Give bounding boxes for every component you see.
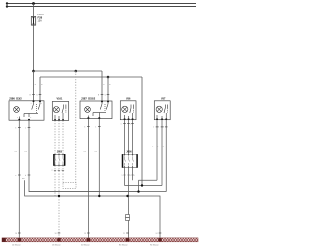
svg-text:ws: ws [22,178,24,180]
svg-text:94 Masse: 94 Masse [150,244,160,246]
svg-text:6: 6 [84,126,85,128]
svg-text:J387 D53/2: J387 D53/2 [81,97,96,101]
svg-text:1: 1 [121,123,122,125]
svg-text:19: 19 [84,233,86,235]
svg-text:15A: 15A [38,20,43,23]
svg-text:2: 2 [130,123,131,125]
svg-text:2: 2 [157,146,158,148]
svg-text:18: 18 [55,233,57,235]
svg-text:3: 3 [17,117,18,119]
svg-text:3: 3 [163,146,164,148]
svg-text:16: 16 [15,233,17,235]
svg-text:6: 6 [15,127,16,129]
svg-text:50 Masse: 50 Masse [81,244,91,246]
svg-text:6: 6 [62,170,63,172]
svg-text:V56: V56 [126,97,131,100]
svg-text:0.5: 0.5 [24,151,27,153]
svg-text:2: 2 [52,170,53,172]
svg-text:V161: V161 [57,98,63,101]
svg-text:V57: V57 [161,97,166,100]
svg-text:J606: J606 [126,151,132,154]
svg-text:a: a [15,175,16,177]
svg-text:0.5: 0.5 [95,151,98,153]
svg-text:2: 2 [158,127,159,129]
svg-text:81 Masse: 81 Masse [119,244,129,246]
svg-text:24: 24 [156,233,158,235]
svg-text:J605: J605 [57,151,63,154]
svg-text:1: 1 [152,146,153,148]
svg-text:J386 D3/2: J386 D3/2 [9,96,22,100]
svg-text:3: 3 [163,127,164,129]
svg-text:1: 1 [31,103,32,105]
svg-text:b: b [25,175,26,177]
svg-text:1: 1 [122,175,123,177]
svg-text:4: 4 [30,117,31,119]
svg-text:0.5: 0.5 [84,151,87,153]
svg-text:5: 5 [134,175,135,177]
svg-text:3: 3 [130,175,131,177]
svg-text:21: 21 [123,233,125,235]
svg-text:0.5: 0.5 [15,151,18,153]
svg-text:16 Masse: 16 Masse [52,244,62,246]
svg-text:14 Masse: 14 Masse [12,244,22,246]
svg-text:1: 1 [153,127,154,129]
svg-text:2: 2 [41,103,42,105]
svg-text:4: 4 [58,170,59,172]
svg-text:1: 1 [95,126,96,128]
svg-text:1: 1 [25,127,26,129]
